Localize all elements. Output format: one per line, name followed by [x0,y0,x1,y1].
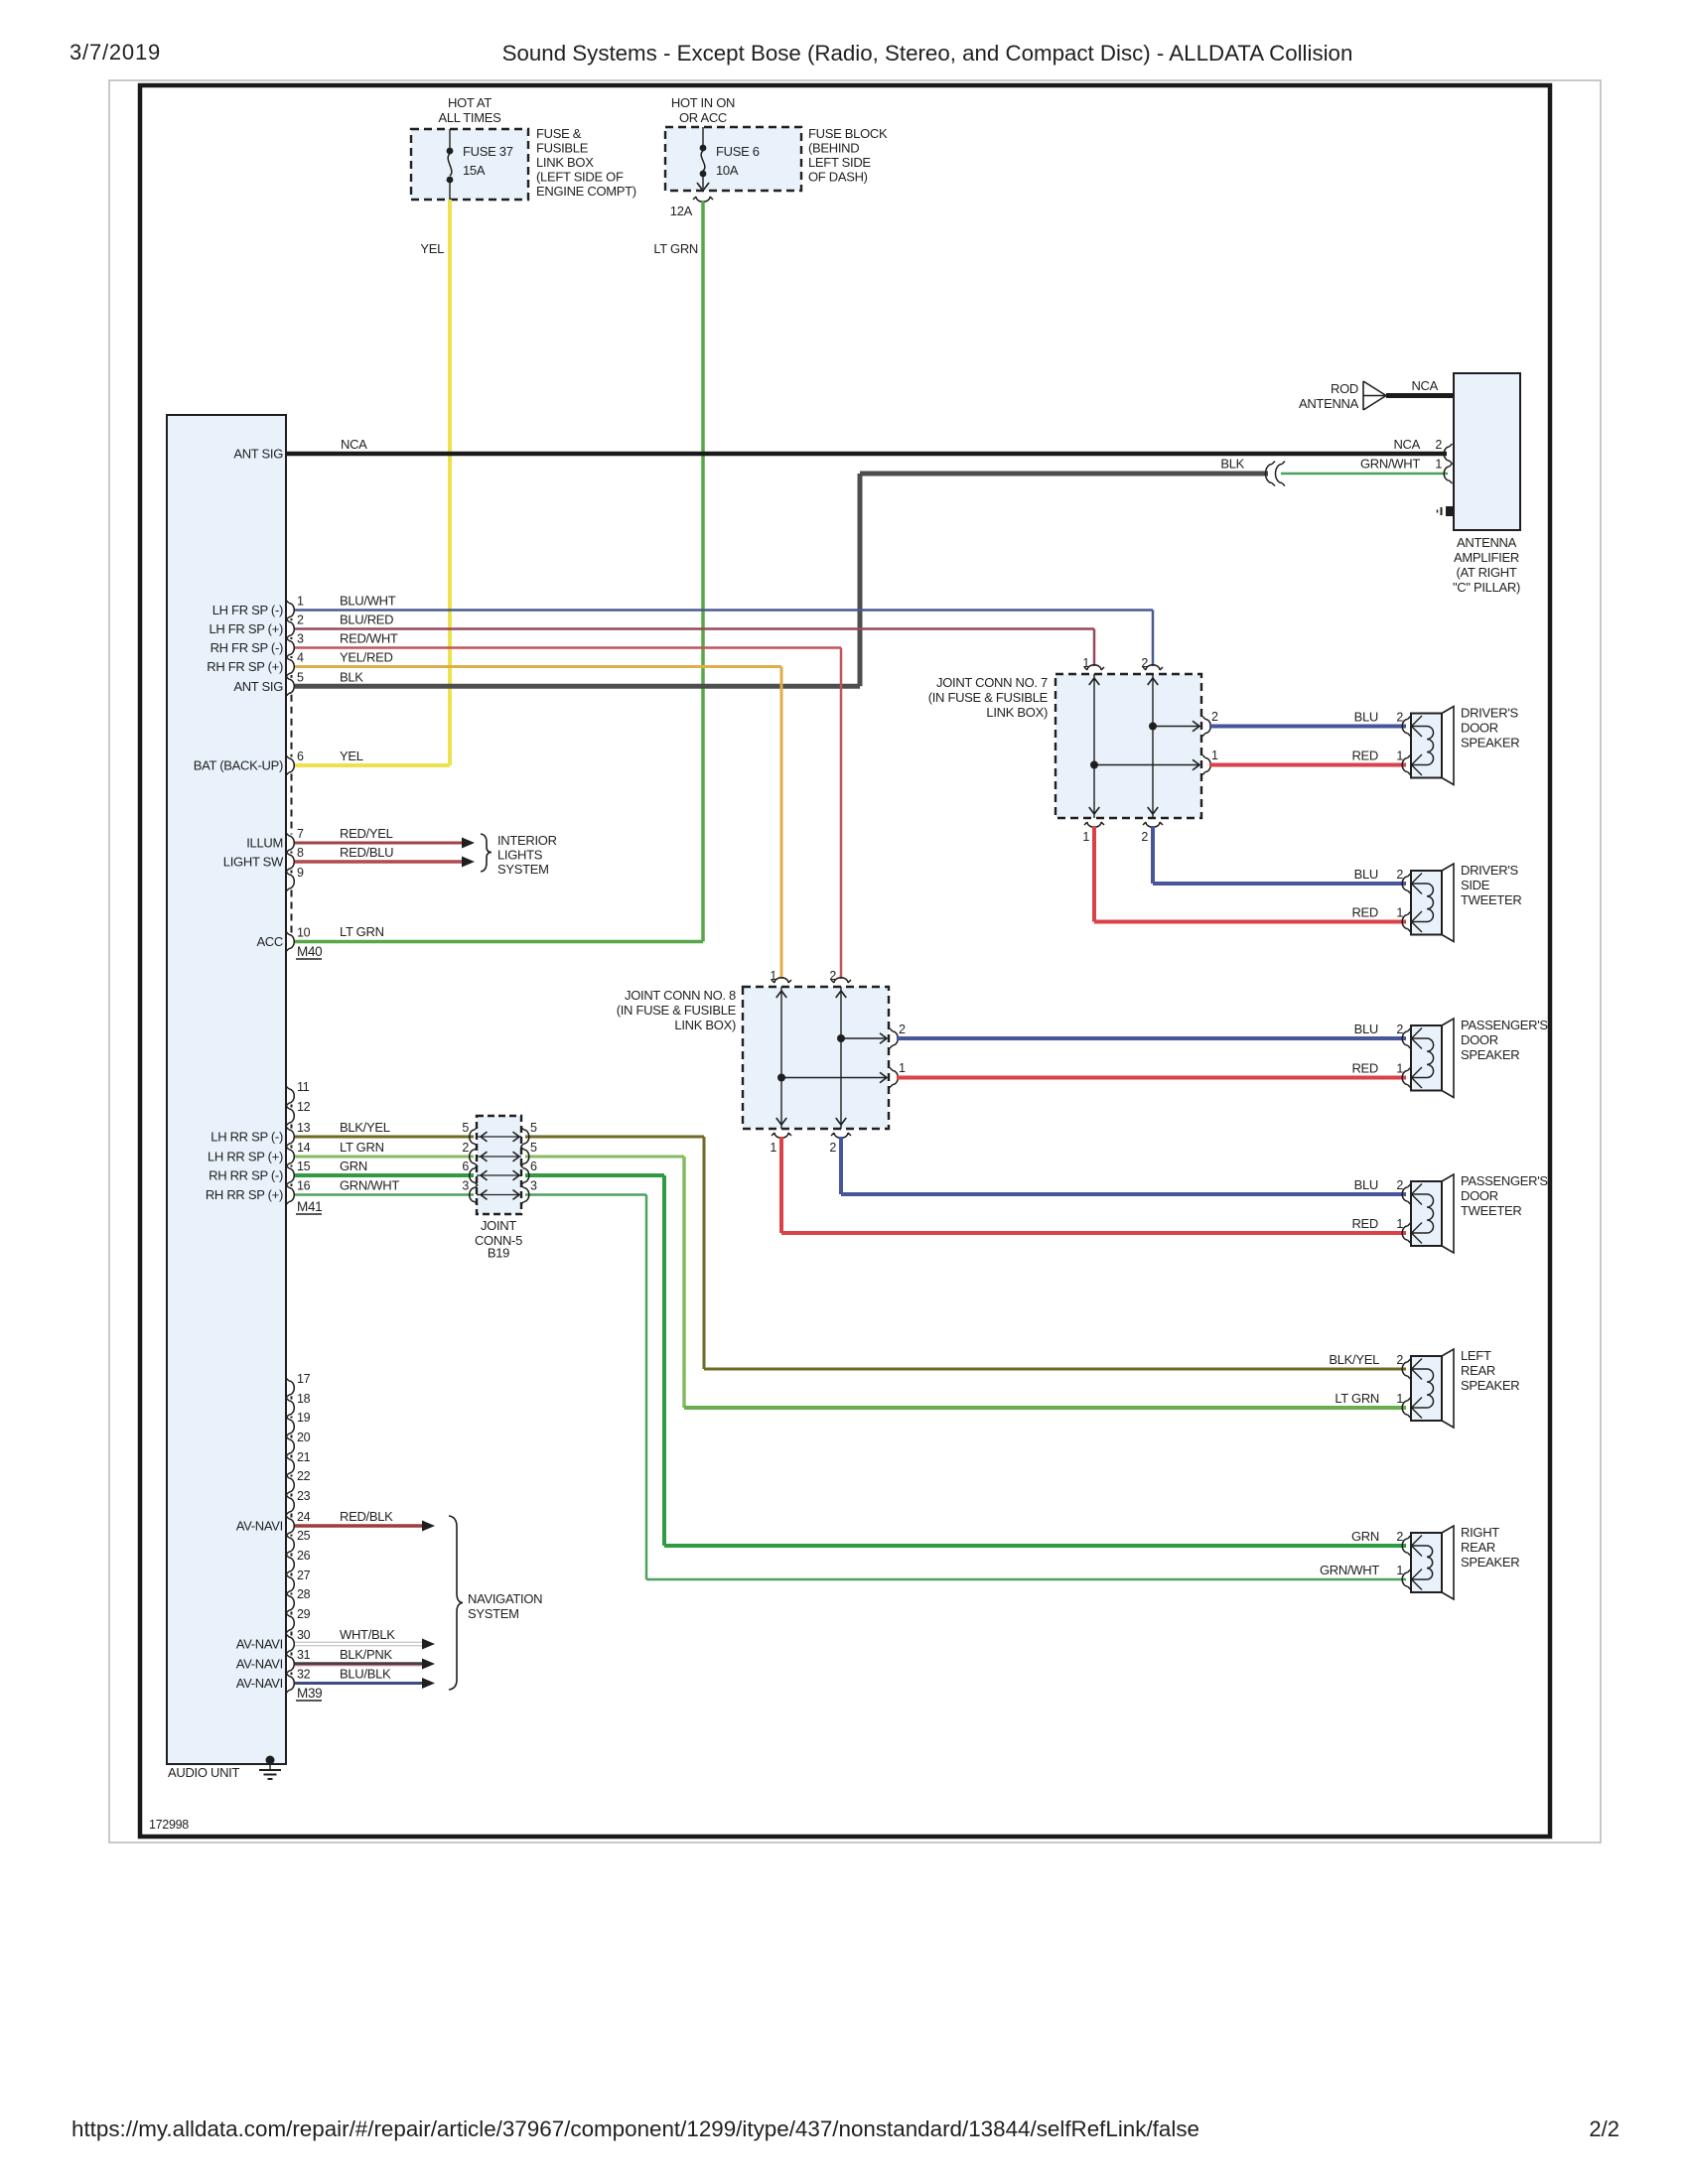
svg-text:FUSE BLOCK: FUSE BLOCK [808,126,888,141]
svg-text:NCA: NCA [341,437,367,452]
svg-text:LINK BOX: LINK BOX [536,155,594,170]
JC7 internal bus 2 [1148,674,1199,818]
svg-text:1: 1 [1396,750,1403,763]
wire RED/YEL pin7 illum [295,838,475,849]
joint conn-5 label [475,1218,522,1261]
svg-text:22: 22 [297,1469,311,1483]
svg-text:RIGHT: RIGHT [1461,1525,1499,1540]
svg-text:2: 2 [829,969,836,983]
wire RED JC7 to drivers side tweeter [1094,826,1406,922]
connector M40 label [296,944,322,959]
svg-text:RH RR SP (-): RH RR SP (-) [209,1168,283,1183]
svg-text:JOINT: JOINT [481,1218,516,1233]
wire BLK/YEL label at left rear speaker [1329,1352,1403,1367]
svg-text:21: 21 [297,1450,311,1464]
svg-text:M40: M40 [297,944,322,959]
svg-text:DRIVER'S: DRIVER'S [1461,863,1519,878]
svg-text:172998: 172998 [149,1818,189,1832]
svg-text:9: 9 [297,866,304,880]
wire WHT/BLK pin30 [295,1639,435,1650]
JC8 internal bus 2 [836,987,887,1129]
svg-text:https://my.alldata.com/repair/: https://my.alldata.com/repair/#/repair/a… [71,2116,1199,2141]
svg-text:DRIVER'S: DRIVER'S [1461,706,1519,721]
svg-text:(AT RIGHT: (AT RIGHT [1456,565,1516,580]
wire BLK upper horizontal to inline connector [860,472,1268,477]
page header date [70,40,161,65]
svg-text:3: 3 [297,632,304,646]
svg-text:6: 6 [297,750,304,763]
svg-text:LH RR SP (+): LH RR SP (+) [208,1150,283,1164]
svg-text:26: 26 [297,1549,311,1563]
wire LT GRN pin10 label [340,924,384,939]
wire LT GRN from fuse F6 down [701,202,705,942]
svg-text:LIGHTS: LIGHTS [497,848,543,863]
svg-text:ALL TIMES: ALL TIMES [438,110,501,125]
navigation system brace [449,1516,463,1690]
svg-text:NCA: NCA [1411,378,1438,393]
svg-text:RED/YEL: RED/YEL [340,826,393,841]
svg-text:BLU/BLK: BLU/BLK [340,1667,391,1682]
drivers door speaker [1402,706,1519,785]
JC8 internal bus 1 [776,987,887,1129]
wire GRN/WHT pin16 label [340,1178,399,1193]
svg-text:2: 2 [1396,711,1403,725]
svg-text:2/2: 2/2 [1589,2116,1619,2141]
svg-text:BLK/YEL: BLK/YEL [1329,1352,1379,1367]
connector M39 pin numbers [297,1372,311,1682]
svg-text:GRN: GRN [1351,1529,1379,1544]
wire LT GRN pin10 acc [295,940,703,944]
wire BLK ant sig pin5 horizontal [295,684,860,689]
wire RED label passengers door [1351,1061,1403,1076]
JC7 bottom pin 1 [1082,822,1104,844]
svg-text:HOT IN ON: HOT IN ON [671,95,735,110]
JC8 bottom pin 2 [829,1133,851,1155]
ground at audio unit [259,1756,281,1780]
svg-text:INTERIOR: INTERIOR [497,833,557,848]
svg-text:(BEHIND: (BEHIND [808,141,859,156]
svg-text:2: 2 [1435,438,1442,452]
wire BLK label [1220,457,1244,472]
JC5 right pin numbers [530,1121,537,1193]
svg-text:ACC: ACC [256,934,283,949]
wire LT GRN pin14 label [340,1140,384,1155]
wire BLK/YEL pin13 [295,1137,1406,1369]
page footer url [71,2116,1199,2141]
svg-text:5: 5 [462,1121,469,1135]
joint connector JC8 label [617,988,737,1032]
diagram border frame [140,85,1550,1837]
svg-text:2: 2 [462,1141,469,1155]
wire YEL from fuse F37 down [448,200,452,765]
wire BLU/BLK label [340,1667,391,1682]
print page boundary [109,80,1601,1843]
svg-text:FUSE &: FUSE & [536,126,582,141]
svg-text:19: 19 [297,1411,311,1425]
svg-text:2: 2 [899,1023,906,1036]
wire GRN/WHT label [1360,457,1420,472]
left rear speaker [1402,1348,1519,1428]
wire GRN pin15 [295,1175,1406,1546]
wire YEL/RED pin4 [295,667,781,980]
svg-text:BLU/WHT: BLU/WHT [340,594,396,609]
svg-text:YEL: YEL [340,749,363,763]
svg-text:BLK: BLK [340,669,363,684]
svg-text:1: 1 [899,1061,906,1075]
svg-text:ENGINE COMPT): ENGINE COMPT) [536,184,636,199]
svg-text:HOT AT: HOT AT [448,95,492,110]
svg-text:6: 6 [530,1160,537,1173]
wire BLU JC7 to drivers door speaker [1209,725,1406,729]
svg-text:YEL: YEL [420,241,444,256]
wire BLU/BLK pin32 [295,1678,435,1689]
ground at antenna amplifier [1438,506,1456,516]
joint connector JC7 box [1055,674,1201,818]
svg-text:(LEFT SIDE OF: (LEFT SIDE OF [536,170,624,185]
audio unit label [168,1765,239,1780]
navigation system label [468,1591,542,1621]
wire BLU/RED pin2 [295,629,1094,667]
inline connector between BLK and GRN/WHT [1266,462,1285,486]
JC5 left pin arcs [470,1127,478,1205]
svg-text:6: 6 [462,1160,469,1173]
JC7 internal bus 1 [1089,674,1199,818]
svg-text:BLK/YEL: BLK/YEL [340,1120,390,1135]
svg-text:LH FR SP (-): LH FR SP (-) [212,603,283,617]
svg-text:28: 28 [297,1587,311,1601]
svg-text:17: 17 [297,1372,311,1386]
svg-text:1: 1 [1396,906,1403,920]
svg-text:1: 1 [1396,1217,1403,1231]
wire RED/BLU label [340,845,393,860]
svg-text:ROD: ROD [1331,381,1358,396]
wire BLU label drivers door [1354,710,1404,725]
svg-text:10A: 10A [716,163,739,178]
connector M40 pin arcs [286,601,294,952]
svg-text:1: 1 [297,595,304,609]
svg-text:1: 1 [770,1141,776,1155]
label hot at all times [438,95,501,125]
svg-text:3/7/2019: 3/7/2019 [70,40,161,65]
wire BLU JC8 to passengers door tweeter [841,1137,1406,1194]
svg-text:12: 12 [297,1100,311,1114]
svg-text:LINK BOX): LINK BOX) [986,705,1048,720]
JC8 right pin 1 [890,1061,906,1088]
wire RED/WHT label [340,631,398,646]
rod antenna label [1299,381,1359,411]
connector M39 pin arcs [286,1378,294,1694]
JC8 top pin 2 [829,969,851,983]
connector 12A below fuse F6 [670,197,713,218]
svg-text:RED/WHT: RED/WHT [340,631,398,646]
svg-text:1: 1 [770,969,776,983]
svg-text:RED: RED [1351,1061,1378,1076]
wire BLK/PNK label [340,1647,392,1662]
wire GRN/WHT label at right rear speaker [1320,1563,1403,1577]
svg-text:8: 8 [297,846,304,860]
svg-text:RED/BLU: RED/BLU [340,845,393,860]
wire BLU JC8 to passengers door speaker [897,1036,1406,1040]
svg-text:BLU: BLU [1354,710,1378,725]
svg-text:LEFT: LEFT [1461,1348,1491,1363]
wire RED JC8 to passengers door tweeter [781,1137,1406,1233]
svg-text:BLK: BLK [1220,457,1244,472]
wire BLU/WHT label [340,594,396,609]
svg-text:2: 2 [1396,1023,1403,1036]
svg-text:LINK BOX): LINK BOX) [674,1018,736,1032]
svg-text:30: 30 [297,1628,311,1642]
right rear speaker [1402,1525,1519,1599]
diagram id 172998 [149,1818,189,1832]
svg-text:2: 2 [1141,656,1148,670]
JC7 right pin 1 [1202,749,1218,775]
connector M41 dashed boundary [291,1105,293,1187]
wire YEL/RED label [340,650,393,665]
svg-text:RED/BLK: RED/BLK [340,1509,393,1524]
svg-text:FUSIBLE: FUSIBLE [536,141,589,156]
svg-text:32: 32 [297,1668,311,1682]
audio unit U1 box [167,415,286,1764]
wire LT GRN label [653,241,698,256]
wire RED JC7 to drivers door speaker [1209,763,1406,767]
svg-text:(IN FUSE & FUSIBLE: (IN FUSE & FUSIBLE [928,690,1049,705]
wire BLU/WHT pin1 [295,611,1153,667]
wire GRN/WHT pin16 [295,1195,1406,1580]
connector M40 dashed boundary [291,618,293,933]
svg-text:31: 31 [297,1648,311,1662]
svg-text:AV-NAVI: AV-NAVI [236,1657,283,1672]
svg-text:B19: B19 [488,1246,509,1261]
fuse F37 location note [536,126,636,199]
svg-text:GRN/WHT: GRN/WHT [1320,1563,1379,1577]
wire RED label drivers door [1351,749,1403,763]
fuse box F37 (fuse & fusible link box) [411,129,528,200]
svg-text:AMPLIFIER: AMPLIFIER [1454,550,1519,565]
svg-text:DOOR: DOOR [1461,1188,1498,1203]
svg-text:ANT SIG: ANT SIG [233,447,283,462]
svg-text:2: 2 [829,1141,836,1155]
svg-text:SPEAKER: SPEAKER [1461,1378,1519,1393]
svg-text:BLU: BLU [1354,1177,1378,1192]
JC8 right pin 2 [890,1023,906,1048]
wire GRN label at right rear speaker [1351,1529,1403,1544]
svg-text:1: 1 [1396,1392,1403,1406]
svg-text:20: 20 [297,1431,311,1444]
svg-text:LT GRN: LT GRN [1335,1391,1379,1406]
interior lights system label [497,833,557,877]
JC5 right pin arcs [521,1127,529,1205]
fuse box F6 (fuse block) [665,127,801,191]
svg-text:24: 24 [297,1510,311,1524]
wire YEL label [420,241,444,256]
svg-text:23: 23 [297,1489,311,1503]
svg-text:YEL/RED: YEL/RED [340,650,393,665]
wire NCA label at amplifier [1393,437,1420,452]
svg-text:7: 7 [297,827,304,841]
antenna amplifier label [1453,535,1520,595]
svg-text:PASSENGER'S: PASSENGER'S [1461,1173,1548,1188]
svg-text:5: 5 [297,670,304,684]
wire WHT/BLK label [340,1627,395,1642]
svg-text:RH FR SP (+): RH FR SP (+) [207,659,283,674]
svg-text:SYSTEM: SYSTEM [468,1606,519,1621]
svg-text:AUDIO UNIT: AUDIO UNIT [168,1765,239,1780]
svg-text:RED: RED [1351,1216,1378,1231]
joint connector JC5 box [477,1116,521,1214]
wire BLU label drivers tweeter [1354,867,1404,882]
svg-text:FUSE 6: FUSE 6 [716,144,760,159]
drivers side tweeter [1402,863,1521,942]
svg-text:11: 11 [297,1080,310,1094]
JC5 left pin numbers [462,1121,469,1193]
svg-text:10: 10 [297,926,311,940]
svg-text:RED: RED [1351,905,1378,920]
svg-text:REAR: REAR [1461,1363,1495,1378]
wire BLK vertical riser [858,474,863,686]
svg-text:AV-NAVI: AV-NAVI [236,1676,283,1691]
antenna amplifier pin 2 label [1435,438,1452,464]
wire BLU label passengers tweeter [1354,1177,1404,1192]
svg-text:ANTENNA: ANTENNA [1299,396,1359,411]
svg-text:LT GRN: LT GRN [340,924,384,939]
svg-text:AV-NAVI: AV-NAVI [236,1519,283,1534]
wire RED/BLK pin24 [295,1521,435,1532]
joint connector JC8 box [743,987,889,1129]
svg-text:WHT/BLK: WHT/BLK [340,1627,395,1642]
wire BLU/RED label [340,613,393,627]
svg-text:SYSTEM: SYSTEM [497,862,549,877]
svg-text:14: 14 [297,1141,311,1155]
svg-text:DOOR: DOOR [1461,721,1498,736]
svg-text:LIGHT SW: LIGHT SW [223,855,284,870]
svg-text:2: 2 [1396,1530,1403,1544]
svg-text:LH FR SP (+): LH FR SP (+) [209,621,283,636]
wire NCA ant sig from audio unit to antenna amplifier [286,452,1447,457]
svg-text:15A: 15A [463,163,486,178]
page footer page number [1589,2116,1619,2141]
wire YEL pin6 horizontal [295,763,450,767]
JC7 top pin 2 [1141,656,1163,670]
svg-text:TWEETER: TWEETER [1461,892,1521,907]
svg-text:REAR: REAR [1461,1540,1495,1555]
svg-text:5: 5 [530,1141,537,1155]
antenna amplifier pin 1 label [1435,458,1452,484]
wire RED/WHT pin3 [295,648,841,980]
svg-text:M39: M39 [297,1686,322,1701]
svg-text:13: 13 [297,1121,311,1135]
passengers door tweeter [1402,1173,1548,1253]
wire GRN label [340,1159,367,1173]
wire YEL pin6 label [340,749,363,763]
svg-text:DOOR: DOOR [1461,1032,1498,1047]
wire NCA label near audio unit [341,437,367,452]
svg-text:BLU: BLU [1354,1022,1378,1036]
wire BLK/PNK pin31 [295,1659,435,1670]
svg-text:BLK/PNK: BLK/PNK [340,1647,392,1662]
wire RED label passengers tweeter [1351,1216,1403,1231]
svg-text:NAVIGATION: NAVIGATION [468,1591,542,1606]
rod antenna symbol [1363,381,1386,410]
svg-text:1: 1 [1396,1564,1403,1577]
wire NCA rod antenna to amplifier [1386,393,1454,398]
connector M41 pin numbers [297,1080,311,1193]
svg-text:SIDE: SIDE [1461,878,1490,892]
page header title [502,41,1353,66]
svg-text:27: 27 [297,1569,311,1582]
svg-text:JOINT CONN NO. 7: JOINT CONN NO. 7 [936,675,1048,690]
svg-text:4: 4 [297,651,304,665]
svg-text:2: 2 [1141,830,1148,844]
svg-text:12A: 12A [670,204,693,218]
wire RED/BLU pin8 light sw [295,857,475,868]
svg-text:1: 1 [1082,656,1089,670]
connector M40 pin numbers [297,595,311,940]
svg-text:BAT (BACK-UP): BAT (BACK-UP) [194,758,283,773]
svg-text:LT GRN: LT GRN [340,1140,384,1155]
svg-text:2: 2 [1396,868,1403,882]
svg-text:RH RR SP (+): RH RR SP (+) [206,1187,283,1202]
svg-text:1: 1 [1082,830,1089,844]
svg-text:Sound Systems - Except Bose (R: Sound Systems - Except Bose (Radio, Ster… [502,41,1353,66]
svg-text:LH RR SP (-): LH RR SP (-) [211,1130,283,1145]
fuse F37 symbol [447,129,454,200]
svg-text:OF DASH): OF DASH) [808,170,868,185]
JC7 right pin 2 [1202,710,1218,737]
JC7 top pin 1 [1082,656,1104,670]
svg-text:2: 2 [1396,1353,1403,1367]
fuse F37 value label [463,144,513,178]
svg-text:TWEETER: TWEETER [1461,1203,1521,1218]
svg-text:GRN: GRN [340,1159,367,1173]
wire RED label drivers tweeter [1351,905,1403,920]
svg-text:PASSENGER'S: PASSENGER'S [1461,1018,1548,1032]
svg-text:LT GRN: LT GRN [653,241,698,256]
svg-text:LEFT SIDE: LEFT SIDE [808,155,871,170]
svg-text:1: 1 [1396,1062,1403,1076]
wire GRN/WHT to antenna amplifier pin 1 [1281,473,1448,476]
svg-text:SPEAKER: SPEAKER [1461,1047,1519,1062]
wire RED JC8 to passengers door speaker [897,1076,1406,1080]
JC5 internal wires and arrows [477,1132,521,1199]
svg-text:29: 29 [297,1607,311,1621]
wire RED/YEL label [340,826,393,841]
fuse F6 value label [716,144,760,178]
svg-text:BLU/RED: BLU/RED [340,613,393,627]
svg-text:ANTENNA: ANTENNA [1457,535,1517,550]
antenna amplifier box [1454,373,1520,530]
wire BLK/YEL label [340,1120,390,1135]
wire BLU JC7 to drivers side tweeter [1153,826,1406,884]
JC8 bottom pin 1 [770,1133,791,1155]
label hot in on or acc [671,95,735,125]
svg-text:ILLUM: ILLUM [246,836,283,851]
wire LT GRN pin14 [295,1157,1406,1408]
svg-text:3: 3 [530,1179,537,1193]
wire BLK pin5 label [340,669,363,684]
svg-text:GRN/WHT: GRN/WHT [1360,457,1420,472]
svg-text:ANT SIG: ANT SIG [233,679,283,694]
fuse F6 location note [808,126,888,185]
svg-text:AV-NAVI: AV-NAVI [236,1637,283,1652]
connector M39 label [296,1686,322,1701]
wire RED/BLK label [340,1509,393,1524]
svg-text:15: 15 [297,1160,311,1173]
svg-text:OR ACC: OR ACC [679,110,727,125]
svg-text:2: 2 [297,614,304,627]
svg-text:SPEAKER: SPEAKER [1461,736,1519,751]
svg-text:16: 16 [297,1179,311,1193]
svg-text:2: 2 [1396,1178,1403,1192]
